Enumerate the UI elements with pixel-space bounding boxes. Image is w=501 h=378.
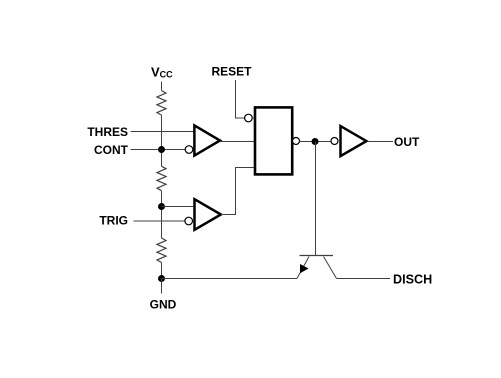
wire GND rail to transistor emitter: [162, 278, 298, 280]
wire rail R1 to R2: [161, 115, 163, 166]
svg-text:TRIG: TRIG: [99, 214, 128, 228]
svg-text:THRES: THRES: [87, 125, 128, 139]
wire divider to comparator U2: [162, 206, 195, 208]
bubble inverter input: [331, 138, 338, 145]
resistor R3: [157, 238, 166, 262]
wire inverter to OUT: [368, 141, 394, 143]
inverter U4 output buffer: [341, 126, 367, 156]
wire THRES to comparator: [131, 131, 195, 133]
bubble latch output: [293, 138, 300, 145]
bubble comparator U1 inverting input: [185, 146, 193, 154]
wire bubble to latch edge: [252, 117, 255, 119]
transistor Q1 base bar: [300, 255, 334, 257]
op-amp U1 comparator THRES: [194, 125, 220, 155]
wire RESET to latch: [236, 80, 245, 118]
wire collector to DISCH: [337, 278, 391, 280]
svg-text:OUT: OUT: [394, 135, 420, 149]
svg-text:RESET: RESET: [212, 65, 253, 79]
op-amp U2 comparator TRIG: [195, 199, 221, 230]
wire TRIG to bubble: [134, 220, 185, 222]
wire VCC to R1: [161, 82, 163, 91]
wire node to transistor base: [315, 142, 317, 257]
wire latch output to node: [300, 141, 332, 143]
svg-text:GND: GND: [150, 298, 177, 312]
latch U3: [255, 107, 292, 174]
resistor R2: [157, 166, 166, 190]
wire R3 to GND node: [161, 263, 163, 279]
bubble comparator U2 inverting input: [185, 217, 193, 225]
wire rail R2 to R3: [161, 191, 163, 238]
bubble latch RESET input: [245, 114, 253, 122]
svg-text:DISCH: DISCH: [393, 272, 432, 286]
node GND junction dot: [158, 275, 165, 282]
wire U2 output to latch: [221, 168, 255, 215]
node divider junction dot: [158, 203, 165, 210]
transistor Q1 emitter arrow: [300, 264, 309, 273]
transistor Q1 collector leg: [324, 257, 337, 279]
node output junction dot: [312, 138, 319, 145]
transistor Q1 emitter leg: [297, 257, 309, 279]
wire U1 output to latch: [220, 141, 255, 143]
node CONT junction dot: [158, 146, 165, 153]
resistor R1: [157, 91, 166, 116]
wire CONT to bubble: [131, 149, 186, 151]
svg-text:CONT: CONT: [94, 143, 129, 157]
wire GND stub: [161, 279, 163, 294]
